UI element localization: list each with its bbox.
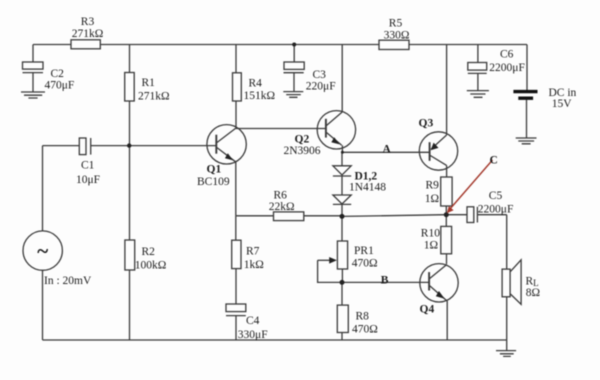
wire R10 to Q4 collector [446, 254, 448, 264]
svg-text:470Ω: 470Ω [352, 323, 378, 335]
wire R2 to bottom rail [129, 270, 131, 340]
transistor Q2 [317, 111, 355, 149]
wire source top lead [42, 146, 44, 231]
wire D2 to junction [341, 204, 343, 216]
ground (below battery) [516, 138, 537, 144]
resistor R6 [274, 212, 304, 221]
svg-text:1N4148: 1N4148 [349, 182, 386, 194]
svg-text:15V: 15V [552, 98, 573, 110]
wire node B to Q4 base [342, 281, 429, 283]
wire node A to Q3 base [342, 151, 429, 153]
svg-text:B: B [381, 275, 389, 287]
svg-text:Q2: Q2 [295, 134, 310, 146]
svg-text:R3: R3 [81, 16, 95, 28]
node dot C1/R1/R2/Q1 [127, 143, 131, 147]
wire node C to C5 [446, 214, 467, 216]
svg-text:C2: C2 [51, 68, 65, 80]
wire R1 bottom lead to node [129, 101, 131, 146]
wire Q1 emitter lead [235, 162, 237, 216]
wire Q1 collector node to Q2 base [236, 128, 326, 130]
svg-text:271kΩ: 271kΩ [72, 28, 104, 40]
svg-text:C1: C1 [81, 159, 95, 171]
wire Q4 emitter to bottom rail [446, 301, 448, 340]
resistor R3 [71, 40, 100, 49]
battery DC in [513, 92, 537, 138]
wire battery top lead [526, 45, 528, 91]
speaker RL [502, 260, 521, 305]
svg-text:22kΩ: 22kΩ [269, 201, 295, 213]
ground (below C6) [467, 91, 489, 98]
transistor Q1 [207, 125, 246, 164]
wire C6 top lead [477, 45, 479, 63]
svg-text:C: C [490, 154, 498, 166]
svg-text:DC in: DC in [549, 87, 577, 99]
svg-text:151kΩ: 151kΩ [244, 90, 276, 102]
svg-text:Q3: Q3 [419, 118, 434, 130]
resistor R7 [232, 240, 241, 268]
wire node B to R8 [341, 282, 343, 305]
diode D1 [333, 166, 351, 176]
capacitor C6 [468, 63, 487, 91]
svg-text:Q1: Q1 [207, 164, 222, 176]
source In 20mV [23, 231, 62, 270]
resistor R10 [441, 226, 452, 253]
svg-text:1Ω: 1Ω [424, 239, 438, 251]
svg-text:Q4: Q4 [420, 303, 435, 315]
wire Q2 emitter to node A [341, 145, 343, 152]
svg-text:C6: C6 [500, 48, 514, 60]
capacitor C2 [23, 62, 44, 92]
svg-text:2200μF: 2200μF [489, 62, 525, 74]
node dot C3 [292, 43, 296, 47]
capacitor C5 [467, 207, 477, 223]
resistor R8 [337, 305, 348, 332]
wire between diodes [341, 176, 343, 195]
svg-text:330μF: 330μF [238, 329, 268, 341]
wire R6 run [236, 215, 342, 217]
svg-text:R2: R2 [142, 246, 156, 258]
wire PR1 bottom to node B [341, 269, 343, 282]
svg-text:C5: C5 [489, 190, 503, 202]
wire R4 to Q1 collector node [235, 101, 237, 129]
svg-text:R6: R6 [274, 189, 288, 201]
wire C3 top lead [293, 45, 295, 63]
wire emitter to R7 [235, 216, 237, 240]
resistor R2 [125, 240, 135, 270]
wire R8 to bottom rail [341, 333, 343, 341]
wire node to R2 [129, 146, 131, 240]
wire source bottom lead [42, 270, 44, 340]
node C dot [444, 212, 449, 217]
wire left branch to C2 [32, 45, 34, 63]
svg-text:R9: R9 [426, 180, 440, 192]
resistor R4 [233, 73, 242, 101]
node A dot [341, 151, 344, 154]
wire C5 to speaker [477, 214, 506, 216]
svg-text:100kΩ: 100kΩ [135, 259, 167, 271]
resistor R9 [441, 177, 452, 206]
svg-text:271kΩ: 271kΩ [138, 90, 170, 102]
wire top rail [33, 44, 527, 46]
wire C1 left lead [43, 145, 80, 147]
wire bottom rail [43, 339, 508, 341]
resistor R5 [379, 40, 409, 49]
resistor R1 [125, 73, 135, 102]
svg-text:A: A [383, 144, 392, 156]
svg-text:470μF: 470μF [45, 80, 75, 92]
ground (bottom right) [496, 351, 516, 357]
wire Q2 collector to rail [341, 45, 343, 113]
svg-text:R10: R10 [421, 228, 440, 240]
red pointer arrow to node C [447, 160, 493, 213]
svg-text:330Ω: 330Ω [384, 30, 410, 42]
wire node C to R10 [445, 215, 447, 227]
svg-text:R8: R8 [356, 311, 370, 323]
ground (below C2) [21, 92, 45, 98]
wire diode lead from node A [341, 152, 343, 166]
svg-text:220μF: 220μF [306, 81, 336, 93]
capacitor C3 [284, 62, 305, 91]
wire Q3 bottom lead to R9 [446, 165, 448, 177]
svg-text:~: ~ [37, 239, 48, 263]
wire R4 top lead [235, 45, 237, 73]
svg-text:RL: RL [526, 275, 539, 288]
svg-text:2N3906: 2N3906 [284, 145, 321, 157]
transistor Q3 [419, 132, 457, 170]
wire C1 to node and Q1 base [91, 145, 217, 147]
svg-text:D1,2: D1,2 [355, 170, 378, 182]
wire speaker to ground [506, 297, 508, 351]
wire junction to node C [342, 215, 446, 217]
svg-text:C4: C4 [246, 315, 260, 327]
svg-text:1Ω: 1Ω [425, 193, 439, 205]
node B dot [340, 280, 345, 285]
ground (below C3) [283, 92, 303, 98]
capacitor C1 [79, 138, 90, 155]
svg-text:2200μF: 2200μF [478, 204, 514, 216]
svg-text:1kΩ: 1kΩ [244, 259, 264, 271]
svg-text:R7: R7 [246, 246, 260, 258]
wire R1 top lead [129, 45, 131, 73]
svg-text:R5: R5 [389, 17, 403, 29]
transistor Q4 [420, 264, 458, 302]
svg-text:8Ω: 8Ω [526, 287, 540, 299]
svg-text:BC109: BC109 [197, 176, 230, 188]
node dot R6/diodes/PR1 [340, 214, 345, 219]
capacitor C4 [226, 304, 246, 340]
potentiometer PR1 [318, 241, 348, 282]
svg-text:470Ω: 470Ω [352, 258, 378, 270]
svg-text:R4: R4 [249, 78, 263, 90]
diode D2 [333, 195, 351, 204]
svg-text:C3: C3 [313, 69, 327, 81]
wire speaker top lead [506, 215, 508, 269]
svg-text:PR1: PR1 [354, 245, 374, 257]
svg-text:10μF: 10μF [76, 174, 100, 186]
wire Q3 top lead to rail [446, 45, 448, 136]
wire R7 to C4 [235, 269, 237, 304]
wire junction to PR1 [341, 216, 343, 241]
wire R9 to node C [445, 206, 447, 215]
svg-text:R1: R1 [142, 77, 156, 89]
svg-text:In : 20mV: In : 20mV [44, 275, 92, 287]
